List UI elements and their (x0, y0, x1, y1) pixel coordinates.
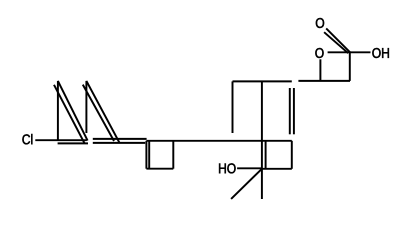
atom label HO (219, 163, 235, 173)
ring1 right edge (172, 141, 174, 169)
wire vertical bond V2 (85, 81, 87, 133)
wire HO bond (237, 167, 262, 169)
wire diagonal D2b (83, 85, 114, 141)
wire top chain right segment (298, 80, 350, 82)
wire C3=C4 upper line (93, 138, 147, 140)
ring2 right edge (291, 141, 293, 169)
ring2 bottom edge (262, 168, 292, 170)
ring2 inner double line (265, 142, 267, 169)
wire C=O line 2 (324, 32, 348, 53)
wire long vertical through ring2 (261, 81, 263, 199)
ring1 left edge (145, 141, 147, 169)
wire diagonal D1b (54, 85, 85, 144)
wire top vertical bond (232, 81, 234, 133)
wire methyl diagonal (231, 169, 262, 199)
atom label O ring (315, 48, 323, 58)
wire vertical bond V1 (57, 81, 59, 140)
wire C to OH bond (350, 51, 371, 53)
wire C3=C4 lower line (93, 142, 145, 144)
atom label OH (372, 48, 389, 58)
wire C1=C2 offset line (58, 142, 88, 144)
atom label O carbonyl (316, 18, 324, 28)
wire bond Cl to C1 plus C1=C2 main line (35, 139, 86, 141)
ring1 bottom edge (146, 168, 173, 170)
wire C=O line 1 (326, 28, 350, 52)
wire vertical double bond line a (289, 88, 291, 134)
wire diagonal D2a (86, 81, 119, 142)
atom label Cl (22, 134, 32, 144)
wire O to carboxyl C bond (328, 51, 351, 53)
wire main chain horizontal (146, 140, 291, 142)
ring3 left edge below O (319, 59, 321, 81)
ring1 inner double line (148, 142, 150, 169)
wire vertical double bond line b (293, 88, 295, 134)
wire diagonal D1a (58, 81, 88, 141)
wire top chain left segment (233, 80, 292, 82)
ring3 right edge (349, 52, 351, 81)
